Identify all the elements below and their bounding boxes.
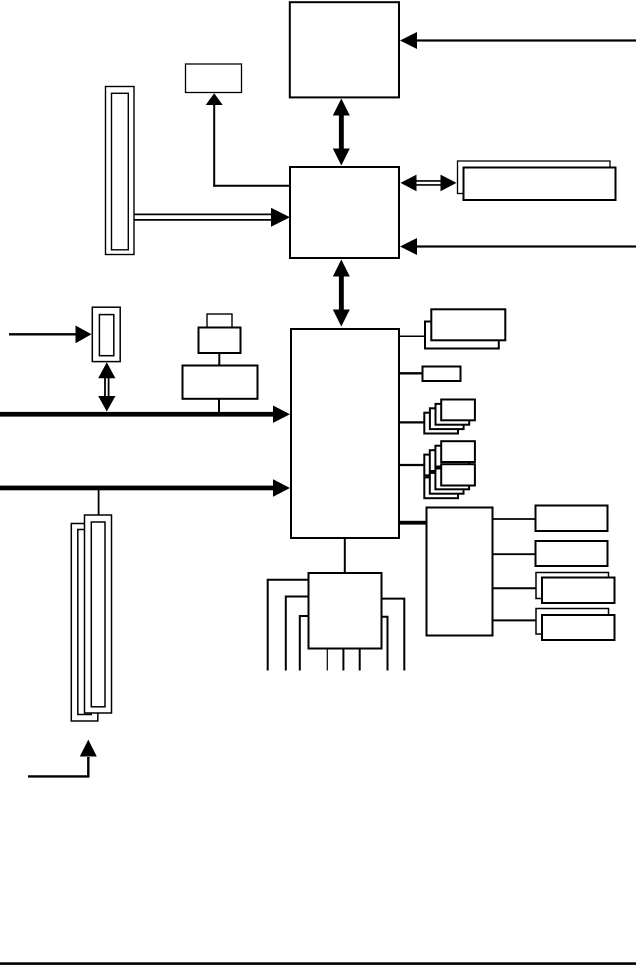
south bridge box <box>291 329 399 538</box>
north bridge box <box>290 167 399 258</box>
wire south bridge to bios chip <box>344 538 346 573</box>
sata lower cascade rect 4 <box>424 477 458 498</box>
sata lower cascade rect 3 <box>430 473 464 494</box>
usb port outer <box>92 307 120 361</box>
bios leg left 2 <box>286 597 309 671</box>
kbms front rect <box>542 578 615 604</box>
bios leg right 2 <box>382 617 388 671</box>
codec box <box>423 367 461 382</box>
sata upper cascade rect 3 <box>430 450 464 471</box>
pci slot front inner <box>91 522 105 707</box>
wire south bridge to ide cascade <box>399 421 424 423</box>
memory dimm front rect <box>464 168 616 201</box>
bios leg bottom 2 <box>342 649 344 671</box>
fsb thick double arrow cpu to north bridge <box>333 99 350 166</box>
thick bus 1 with arrow into south bridge <box>0 406 290 423</box>
bios leg right 1 <box>382 599 405 671</box>
sata upper cascade rect 4 <box>424 455 458 476</box>
lan front rect <box>431 309 505 340</box>
sata upper cascade rect 2 <box>435 446 469 467</box>
wire south bridge to lan group <box>399 335 425 337</box>
wire super io to fdd group <box>493 619 537 621</box>
bios leg bottom 3 <box>359 649 361 671</box>
ide cascade rect 3 <box>430 408 464 429</box>
ide cascade rect 4 <box>424 413 458 434</box>
wire south bridge to codec box <box>399 372 423 374</box>
agp slot inner <box>112 93 129 250</box>
wire arrow into north bridge right side <box>400 238 636 255</box>
lan back rect <box>425 322 499 349</box>
wire arrow into usb port <box>9 326 92 344</box>
ide cascade rect 1 <box>441 400 475 421</box>
link thick double arrow north bridge to south bridge <box>333 260 350 327</box>
pci slot back inner <box>78 530 92 715</box>
pci slot front outer <box>85 515 112 713</box>
wire super io to kbms group <box>493 587 537 589</box>
clock box <box>186 64 242 93</box>
agp bus double line with arrow to north bridge <box>135 208 291 227</box>
battery box <box>183 366 258 399</box>
wire arrow into cpu right side <box>400 32 636 49</box>
bios leg left 1 <box>268 580 309 671</box>
ide cascade rect 2 <box>436 404 470 425</box>
sata lower cascade rect 1 <box>441 464 475 485</box>
thick wire south bridge to super io <box>399 521 427 525</box>
wire crystal to battery box <box>218 353 220 366</box>
lpt box <box>536 541 608 566</box>
crystal top box <box>207 314 232 327</box>
com box <box>536 506 608 532</box>
footer rule <box>0 962 636 965</box>
agp slot outer <box>106 87 135 255</box>
kbms back rect <box>536 573 609 599</box>
thick bus 2 with arrow into south bridge <box>0 479 290 496</box>
fdd back rect <box>536 609 609 635</box>
bios leg left 3 <box>300 616 309 671</box>
hollow double arrow usb port to bus <box>98 362 115 411</box>
pci slot back outer <box>71 524 98 722</box>
wire battery box to bus <box>218 399 220 412</box>
usb port inner <box>99 315 113 356</box>
cpu box <box>290 2 399 97</box>
sata lower cascade rect 2 <box>435 469 469 490</box>
wire super io to lpt box <box>493 553 536 555</box>
wire up-arrow below pci slots <box>28 740 97 777</box>
wire up-arrow into clock box <box>206 93 223 187</box>
bios leg bottom 1 <box>326 649 328 671</box>
super io box <box>427 508 493 636</box>
wire bus 2 to pci slots <box>98 490 100 516</box>
sata upper cascade rect 1 <box>441 441 475 462</box>
crystal mid box <box>199 328 241 354</box>
wire super io to com box <box>493 518 536 520</box>
memory bus double arrow <box>401 175 457 192</box>
wire south bridge to sata cascades <box>399 464 424 466</box>
bios chip box <box>309 573 382 649</box>
wire clock to north bridge <box>213 185 290 187</box>
fdd front rect <box>542 615 615 640</box>
memory dimm back rect <box>458 161 611 194</box>
